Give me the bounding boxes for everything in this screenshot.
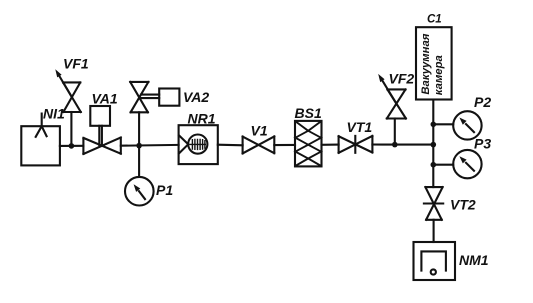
VT2 center bar [424, 202, 443, 204]
svg-text:BS1: BS1 [295, 105, 322, 121]
svg-text:камера: камера [433, 55, 445, 95]
gauge P2 [453, 111, 481, 139]
NI1 symbol mark on top edge [36, 114, 47, 137]
wire: VT1 to chamber drop main line [372, 143, 433, 145]
wire: P2 branch [433, 123, 453, 125]
svg-text:P2: P2 [474, 94, 491, 110]
node: junction VF1/main [69, 143, 75, 149]
svg-text:VA2: VA2 [183, 89, 209, 105]
svg-text:NM1: NM1 [459, 252, 489, 268]
VF1 arrow [59, 75, 72, 96]
node: junction P3 branch [431, 162, 437, 168]
NM1 small circle [431, 269, 436, 274]
P1 needle [139, 191, 145, 199]
wire: VF1 stem [70, 112, 72, 146]
valve VA1 (bowtie with actuator box) [83, 138, 120, 155]
svg-text:VT1: VT1 [347, 119, 373, 135]
VA1 actuator box [90, 106, 110, 126]
P2 needle [466, 124, 474, 132]
VA1 stem (double line) [99, 126, 102, 145]
wire: chamber down to P2 node to main to P3 node to VT2 [432, 100, 434, 188]
valve VF1 (leak valve, vertical bowtie) [63, 82, 81, 112]
NM1 internal bracket [421, 251, 446, 270]
wire: P3 branch [433, 164, 453, 166]
gauge P1 [125, 177, 154, 206]
trap BS1 box [295, 121, 322, 166]
wire: NI1 to VA1 main line [60, 145, 84, 147]
chamber C1 box [416, 27, 452, 99]
wire: VF2 stem [394, 119, 396, 145]
NR1 circle [188, 135, 207, 154]
VT1 center bar [354, 136, 356, 153]
node: junction VF2/main [392, 142, 398, 148]
svg-text:VF1: VF1 [63, 55, 89, 71]
BS1 zigzag left [295, 121, 308, 166]
valve VF2 (leak valve, vertical bowtie) [387, 89, 406, 118]
valve VT2 (vertical bowtie with center bar) [425, 187, 442, 220]
NR1 grill (line + ticks) [190, 139, 205, 149]
VF2 arrow [382, 80, 396, 104]
pump NM1 box [414, 242, 456, 280]
valve V1 (plain bowtie) [243, 136, 275, 153]
svg-text:NR1: NR1 [188, 110, 216, 126]
svg-text:P1: P1 [156, 182, 173, 198]
wire: VA1 to NR1 main line [121, 144, 179, 147]
P3 needle [466, 163, 474, 171]
svg-text:VA1: VA1 [92, 90, 118, 106]
BS1 zigzag right [308, 121, 321, 166]
svg-text:P3: P3 [474, 136, 491, 152]
svg-text:Вакуумная: Вакуумная [420, 33, 432, 94]
svg-text:NI1: NI1 [43, 106, 65, 122]
svg-text:VF2: VF2 [389, 71, 415, 87]
node: junction P2 branch [431, 122, 437, 128]
svg-text:C1: C1 [427, 14, 442, 26]
pump NR1 box [179, 125, 218, 164]
valve VT1 (bowtie with center bar) [339, 136, 373, 153]
gauge P3 [453, 150, 481, 178]
wire: VA2 drop to main [138, 112, 140, 145]
valve VA2 (vertical bowtie with actuator box at right) [130, 82, 148, 112]
wire: P1 stem [138, 146, 140, 177]
svg-text:VT2: VT2 [450, 197, 476, 213]
wire: V1 to BS1 main line [274, 144, 295, 146]
node: junction VA2-P1/main [136, 143, 142, 149]
wire: P3 node to VT2 top handled above; VT2 bottom to NM1 [433, 220, 435, 242]
NR1 left arrow < [179, 135, 188, 153]
wire: NR1 to V1 main line [218, 144, 243, 147]
node: junction main/vertical [431, 142, 437, 148]
chamber/pump NI1 box [21, 126, 60, 165]
VA2 actuator box [159, 89, 179, 106]
wire: BS1 to VT1 main line [322, 144, 339, 146]
svg-text:V1: V1 [251, 123, 268, 139]
VA2 stem (double line) [141, 95, 159, 99]
